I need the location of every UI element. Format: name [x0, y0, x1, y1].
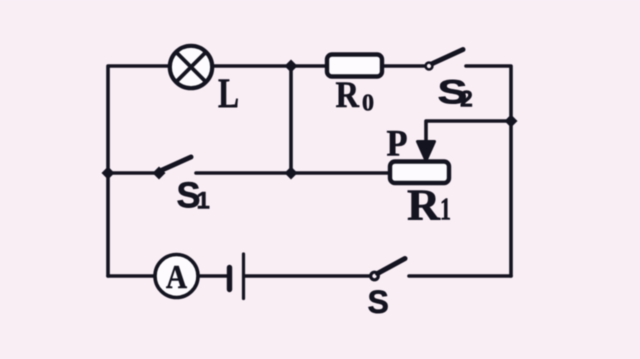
wire: S2 to top-right corner down right vertical [466, 66, 511, 276]
wire: vertical drop from top node to middle node [289, 66, 293, 173]
wire: R0 to switch S2 pivot [382, 64, 425, 68]
switch S2 [426, 50, 463, 70]
rheostat R1 [390, 162, 449, 184]
svg-text:R: R [336, 75, 361, 116]
battery: long thin plate [242, 254, 245, 299]
svg-text:2: 2 [460, 86, 473, 112]
ammeter A [155, 255, 198, 298]
svg-text:R: R [407, 181, 441, 230]
wire: middle, S1 to rheostat left terminal [196, 171, 390, 175]
slider arrow P [418, 142, 435, 161]
wire: top, lamp to R0 (through node) [213, 64, 327, 68]
label S2 [437, 74, 467, 112]
switch S1 [153, 157, 192, 180]
svg-text:P: P [387, 124, 408, 165]
wire: slider P up and right to right vertical [426, 121, 511, 150]
wire: ammeter to battery [198, 274, 229, 278]
wire: bottom, left vertical to ammeter [108, 274, 155, 278]
svg-text:L: L [218, 72, 239, 118]
wire: left vertical + top-left segment to lamp [108, 66, 169, 276]
lamp L [170, 46, 212, 88]
node A (top junction) [285, 60, 298, 73]
svg-text:0: 0 [362, 91, 374, 117]
svg-text:A: A [166, 259, 187, 296]
wire: S to bottom-right corner [409, 274, 511, 278]
battery cell [230, 254, 244, 299]
battery: short thick plate [227, 268, 232, 290]
node B (right junction with slider wire) [505, 115, 518, 128]
wire: battery to switch S pivot [244, 274, 371, 278]
resistor R0 [327, 55, 382, 77]
svg-text:1: 1 [440, 191, 451, 227]
wire: middle, left vertical to S1 pivot [108, 171, 158, 175]
node D (left vertical / middle wire) [102, 167, 115, 180]
svg-text:1: 1 [197, 188, 210, 215]
svg-text:S: S [368, 284, 389, 320]
node C (middle junction) [285, 167, 298, 180]
switch S [371, 259, 405, 280]
